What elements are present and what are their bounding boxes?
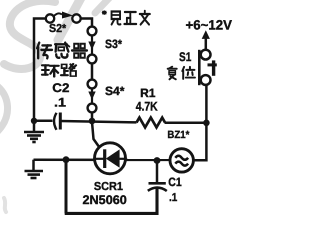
svg-text:2N5060: 2N5060 — [83, 193, 127, 207]
svg-text:SCR1: SCR1 — [94, 181, 124, 193]
svg-text:S3*: S3* — [105, 37, 122, 51]
svg-text:S4*: S4* — [105, 84, 125, 98]
svg-text:.1: .1 — [54, 96, 66, 110]
svg-text:S2*: S2* — [49, 23, 67, 35]
svg-text:.1: .1 — [169, 192, 178, 204]
svg-text:S1: S1 — [179, 50, 191, 64]
svg-text:4.7K: 4.7K — [136, 99, 158, 113]
svg-text:+6~12V: +6~12V — [186, 17, 232, 32]
svg-text:C1: C1 — [168, 175, 182, 189]
svg-text:C2: C2 — [52, 81, 69, 95]
svg-text:R1: R1 — [140, 86, 156, 100]
svg-text:BZ1*: BZ1* — [167, 129, 190, 141]
